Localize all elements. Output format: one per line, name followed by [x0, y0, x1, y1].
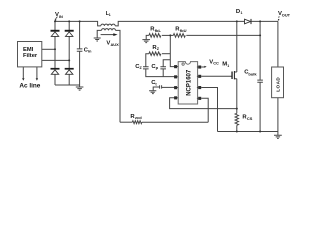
svg-text:1: 1	[109, 13, 111, 17]
svg-text:1: 1	[241, 11, 243, 15]
svg-text:fbU: fbU	[180, 28, 187, 33]
svg-text:CS: CS	[247, 116, 253, 121]
svg-text:1: 1	[227, 64, 229, 68]
svg-text:OUT: OUT	[282, 13, 291, 18]
svg-text:Z: Z	[157, 47, 160, 51]
svg-text:IN: IN	[59, 14, 63, 19]
svg-text:t: t	[155, 81, 157, 86]
svg-text:Ac line: Ac line	[19, 82, 40, 89]
svg-text:NCP1607: NCP1607	[186, 69, 192, 96]
svg-text:CC: CC	[213, 61, 219, 66]
svg-text:AUX: AUX	[111, 42, 120, 47]
svg-text:zcd: zcd	[135, 115, 142, 120]
svg-text:bulk: bulk	[248, 72, 257, 77]
svg-text:Z: Z	[140, 66, 143, 70]
svg-text:p: p	[156, 65, 159, 70]
svg-text:fbL: fbL	[155, 28, 162, 33]
svg-text:Filter: Filter	[23, 53, 38, 59]
svg-text:LOAD: LOAD	[275, 77, 280, 92]
svg-text:in: in	[88, 49, 92, 54]
